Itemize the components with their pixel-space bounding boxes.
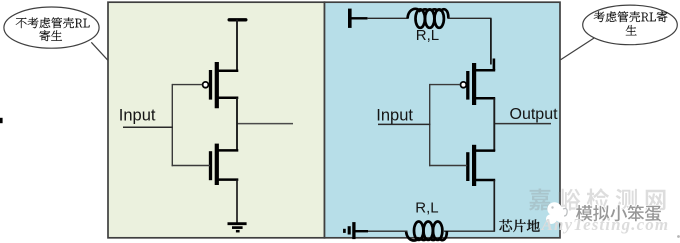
svg-text:AnyTesting.com: AnyTesting.com: [541, 215, 670, 234]
svg-text:Input: Input: [376, 106, 413, 124]
svg-text:R,L: R,L: [415, 200, 438, 217]
svg-text:Input: Input: [119, 106, 156, 124]
svg-text:R,L: R,L: [416, 27, 439, 44]
svg-text:Output: Output: [510, 106, 559, 123]
